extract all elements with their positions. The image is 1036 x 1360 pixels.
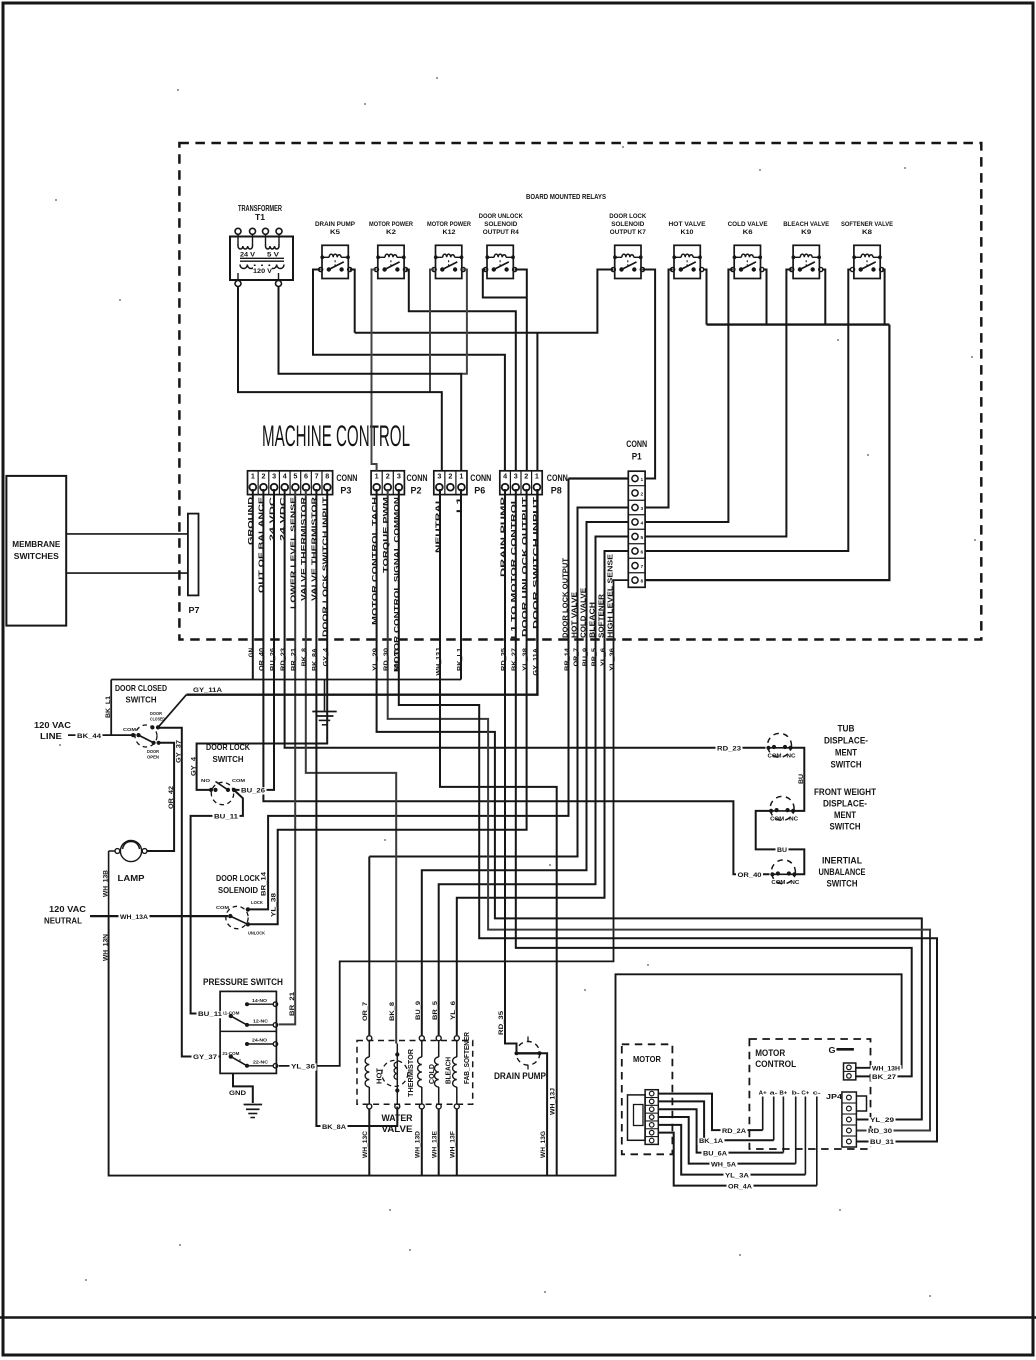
svg-text:A+: A+ [759, 1091, 767, 1097]
svg-text:GND: GND [229, 1090, 246, 1097]
svg-text:11-COM: 11-COM [222, 1011, 239, 1017]
label K8 [841, 221, 893, 236]
wire RD_23 (P3 pin4) [285, 489, 766, 748]
svg-text:BR_14: BR_14 [261, 871, 268, 896]
svg-text:OUT OF BALANCE: OUT OF BALANCE [259, 496, 266, 593]
svg-text:OR_42: OR_42 [168, 785, 175, 809]
svg-text:MOTOR POWER: MOTOR POWER [369, 221, 413, 228]
svg-text:K2: K2 [386, 229, 396, 236]
svg-text:BR_21: BR_21 [289, 991, 296, 1016]
svg-text:1: 1 [375, 471, 379, 480]
svg-text:P2: P2 [411, 486, 422, 497]
svg-text:UNBALANCE: UNBALANCE [819, 867, 866, 877]
svg-text:1: 1 [459, 471, 463, 480]
svg-text:2: 2 [386, 471, 390, 480]
svg-text:8: 8 [641, 579, 644, 585]
svg-text:7: 7 [315, 471, 319, 480]
wire BU_31 signal common (P2 pin3) [399, 489, 937, 1142]
label OR_7 [362, 1001, 369, 1021]
P2 pin name labels [372, 497, 401, 672]
door closed switch [115, 683, 167, 760]
relay R4 [484, 245, 517, 278]
svg-text:K10: K10 [681, 229, 694, 236]
svg-text:CONN: CONN [407, 473, 428, 484]
svg-text:YL_29: YL_29 [870, 1117, 895, 1124]
svg-text:GY_11A: GY_11A [533, 647, 540, 675]
wire L1 top run with ground tap [111, 680, 461, 736]
svg-text:K6: K6 [743, 229, 753, 236]
svg-text:MACHINE CONTROL: MACHINE CONTROL [262, 420, 410, 453]
svg-text:DOOR LOCK OUTPUT: DOOR LOCK OUTPUT [563, 557, 570, 638]
connector P7 [188, 514, 200, 615]
svg-text:SWITCHES: SWITCHES [14, 551, 59, 561]
ground symbol (earth) [312, 712, 336, 725]
transformer T1 [230, 204, 293, 287]
wire K7 right to P1 pin1 [642, 270, 655, 479]
svg-text:SOLENOID: SOLENOID [484, 221, 517, 228]
door lock solenoid [216, 873, 265, 936]
svg-text:BK_L1: BK_L1 [105, 695, 112, 718]
svg-text:BK_44: BK_44 [77, 733, 102, 740]
wire K10 left to P1 pin3 [645, 270, 673, 508]
svg-text:THERMISTOR: THERMISTOR [408, 1049, 415, 1097]
svg-text:P7: P7 [189, 606, 201, 615]
wire GY_11A door switch input (P8 pin4) [158, 489, 537, 727]
P8 pin name labels [500, 496, 539, 639]
label K12 [427, 221, 471, 236]
P6 pin name labels [435, 496, 463, 553]
svg-text:22-NC: 22-NC [253, 1059, 269, 1065]
connector motor control 2-pin [844, 1063, 856, 1080]
front weight displacement switch [769, 796, 798, 822]
svg-text:OPEN: OPEN [147, 755, 159, 760]
svg-text:BU_11: BU_11 [214, 814, 239, 821]
wire YL_29 motor control tach (P2 pin1) [377, 489, 922, 1120]
svg-text:1: 1 [535, 471, 539, 480]
wire K12 left to transformer neutral run [430, 270, 434, 393]
connector JP4 [826, 1092, 867, 1147]
wire membrane to P7 upper [66, 533, 188, 535]
label OR_40 at switch [736, 872, 763, 879]
wire lamp to neutral [108, 851, 110, 916]
svg-text:YL_36: YL_36 [291, 1064, 316, 1071]
svg-text:COM: COM [771, 880, 785, 886]
wire bus to P8 pin4 [536, 333, 538, 471]
svg-text:SWITCH: SWITCH [126, 695, 157, 705]
wire K2 left to P2 pin1 [372, 270, 377, 471]
relay K7 [611, 245, 644, 278]
svg-text:YL_6: YL_6 [450, 1000, 457, 1020]
svg-text:3: 3 [397, 471, 401, 480]
svg-text:WH_13G: WH_13G [540, 1131, 547, 1158]
svg-text:BR_5: BR_5 [591, 647, 598, 666]
relay K10 [671, 245, 704, 278]
svg-text:OR_7: OR_7 [362, 1001, 369, 1021]
wire YL_38 door unlock output (P8 pin3) [250, 489, 527, 924]
svg-text:BU: BU [798, 773, 805, 784]
svg-text:4: 4 [503, 471, 507, 480]
membrane switches box [6, 476, 66, 626]
svg-text:YL_38: YL_38 [270, 892, 277, 917]
svg-text:C+: C+ [801, 1091, 809, 1097]
node G [829, 1045, 854, 1055]
svg-text:24 VDC: 24 VDC [280, 497, 287, 541]
svg-text:BU: BU [777, 847, 788, 854]
tub displacement switch [766, 733, 795, 759]
svg-text:VALVE: VALVE [382, 1124, 413, 1134]
svg-text:BU_31: BU_31 [870, 1139, 895, 1146]
svg-text:DOOR LOCK: DOOR LOCK [216, 873, 261, 883]
wire K2 right to P8 pin2 [406, 270, 516, 471]
svg-text:21-COM: 21-COM [222, 1051, 239, 1057]
labels motor wires [698, 1128, 754, 1191]
svg-text:7: 7 [641, 564, 644, 570]
label BK_8A at valve [321, 1124, 348, 1131]
wire bus K5-K7 [355, 270, 614, 333]
label BU_11 at pressure switch [197, 1011, 224, 1018]
connector P6 [434, 471, 492, 497]
wire K12 right joins L1 run [461, 270, 467, 374]
svg-text:SWITCH: SWITCH [831, 760, 862, 770]
P1 net name labels [563, 554, 615, 638]
svg-text:MOTOR: MOTOR [633, 1054, 661, 1064]
motor dashed box [622, 1044, 673, 1154]
svg-text:P3: P3 [340, 486, 351, 497]
node 120 VAC NEUTRAL [44, 904, 228, 926]
wire transformer primary left to P6 pin3 neutral [238, 287, 442, 471]
svg-text:BU_6A: BU_6A [703, 1150, 728, 1157]
wire BR_5 bleach (P1 pin5) [439, 537, 629, 1036]
svg-text:1: 1 [251, 471, 255, 480]
svg-text:YL_36: YL_36 [609, 647, 616, 671]
svg-text:BU_9: BU_9 [582, 647, 589, 666]
wire YL_6 softener (P1 pin6) [457, 551, 629, 1035]
svg-text:MOTOR: MOTOR [755, 1048, 785, 1058]
svg-text:WH_13H: WH_13H [872, 1065, 901, 1072]
svg-text:BK_1A: BK_1A [699, 1138, 724, 1145]
wire R4 right to P8 pin3 [515, 270, 527, 471]
svg-text:COLD VALVE: COLD VALVE [728, 221, 768, 228]
wire K6 right to valve bus [763, 270, 766, 325]
svg-text:K5: K5 [330, 229, 340, 236]
svg-text:3: 3 [641, 506, 644, 512]
svg-text:BU_26: BU_26 [241, 788, 266, 795]
svg-text:TRANSFORMER: TRANSFORMER [238, 204, 282, 213]
connector P3 [248, 471, 358, 497]
svg-text:T1: T1 [255, 213, 266, 222]
connector P1 [626, 439, 647, 587]
label BK_L1 [105, 695, 112, 718]
svg-text:COM: COM [232, 778, 245, 784]
svg-text:BK_L1: BK_L1 [456, 647, 463, 671]
svg-text:SOFTENER VALVE: SOFTENER VALVE [841, 221, 893, 228]
wire K9 right to valve bus [822, 270, 825, 325]
svg-text:BLEACH: BLEACH [446, 1057, 453, 1084]
svg-text:BK_8: BK_8 [389, 1001, 396, 1021]
svg-text:RD_2A: RD_2A [722, 1128, 747, 1135]
svg-text:GY_11A: GY_11A [193, 687, 222, 694]
relay K6 [731, 245, 764, 278]
svg-text:1: 1 [641, 477, 644, 483]
svg-text:BU_11: BU_11 [198, 1011, 223, 1018]
wire YL_36 high level sense (P1 pin8) [279, 580, 629, 1066]
label BR_21 [289, 991, 296, 1016]
svg-text:6: 6 [304, 471, 308, 480]
motor phase wires [658, 1094, 817, 1186]
svg-text:RD_30: RD_30 [383, 647, 390, 671]
svg-text:VALVE THERMISTOR: VALVE THERMISTOR [312, 497, 319, 601]
svg-text:LINE: LINE [40, 731, 62, 741]
svg-text:DOOR UNLOCK OUTPUT: DOOR UNLOCK OUTPUT [522, 496, 529, 637]
svg-text:CONN: CONN [336, 473, 357, 484]
svg-text:GROUND: GROUND [248, 497, 255, 545]
label K9 [783, 221, 829, 236]
wire RD_30 torque pwm (P2 pin2) [388, 489, 930, 1131]
svg-text:BK_27: BK_27 [511, 647, 518, 671]
lamp [109, 840, 147, 883]
svg-text:MOTOR CONTROL TACH: MOTOR CONTROL TACH [372, 497, 379, 625]
motor control dashed box [749, 1039, 870, 1149]
svg-text:WH_13D: WH_13D [415, 1130, 422, 1158]
svg-text:4: 4 [641, 520, 644, 526]
svg-text:P1: P1 [632, 452, 642, 462]
wire BR_14 door lock output (P1 pin1) [250, 479, 629, 910]
label WH_13B [103, 869, 110, 897]
svg-text:DOOR UNLOCK: DOOR UNLOCK [479, 213, 523, 220]
svg-text:SWITCH: SWITCH [830, 822, 861, 832]
svg-text:RD_30: RD_30 [868, 1128, 893, 1135]
svg-text:SOLENOID: SOLENOID [611, 221, 644, 228]
svg-text:2: 2 [524, 471, 528, 480]
label BU horizontal [776, 847, 789, 854]
svg-text:RD_35: RD_35 [498, 1010, 505, 1035]
svg-text:MEMBRANE: MEMBRANE [12, 539, 60, 549]
svg-text:WH_13C: WH_13C [362, 1130, 369, 1158]
svg-text:SWITCH: SWITCH [213, 754, 244, 764]
label inertial unbalance switch [819, 856, 866, 889]
svg-text:SOLENOID: SOLENOID [218, 885, 258, 895]
wire K5 right to bus [350, 270, 355, 333]
label BU_9 [415, 1000, 422, 1020]
svg-text:DOOR LOCK: DOOR LOCK [609, 213, 646, 220]
svg-text:L1 TO MOTOR CONTROL: L1 TO MOTOR CONTROL [511, 496, 518, 639]
relay K8 [850, 245, 883, 278]
door lock switch [201, 742, 251, 805]
label WH_13N [103, 933, 110, 961]
svg-text:G: G [829, 1045, 836, 1055]
svg-text:FRONT WEIGHT: FRONT WEIGHT [814, 787, 876, 797]
svg-text:NC: NC [789, 816, 798, 822]
svg-text:120 VAC: 120 VAC [49, 904, 86, 914]
svg-text:K8: K8 [862, 229, 872, 236]
wire membrane to P7 lower [66, 572, 188, 574]
svg-text:2: 2 [261, 471, 265, 480]
svg-text:K9: K9 [801, 229, 811, 236]
label RD_23 [716, 745, 743, 752]
label K7 [609, 213, 646, 236]
svg-text:DOOR CLOSED: DOOR CLOSED [115, 683, 167, 693]
svg-text:CONN: CONN [547, 473, 568, 484]
relay K9 [790, 245, 823, 278]
label GY_37 vertical [175, 739, 182, 763]
label BK_8 [389, 1001, 396, 1021]
label YL_36 [290, 1063, 317, 1070]
svg-text:5 V: 5 V [267, 252, 280, 259]
label tub displacement switch [824, 724, 868, 770]
svg-text:24 V: 24 V [240, 252, 255, 259]
svg-text:COLD VALVE: COLD VALVE [581, 588, 588, 638]
wire RD_35 drain pump (P8 pin1) [505, 489, 517, 1051]
labels WH_13C-F [362, 1130, 457, 1158]
svg-text:GY_4: GY_4 [323, 647, 330, 666]
connector P2 [371, 471, 427, 497]
svg-text:2: 2 [641, 491, 644, 497]
svg-text:6: 6 [641, 549, 644, 555]
label BU vertical [798, 773, 805, 784]
svg-text:120 V: 120 V [253, 268, 272, 275]
wire WH_13J neutral (P6 pin3) [440, 489, 557, 1176]
node 120 VAC LINE [34, 720, 133, 741]
label GY_11A [193, 687, 222, 694]
svg-text:c-: c- [813, 1091, 821, 1097]
svg-text:YL_29: YL_29 [372, 647, 379, 671]
svg-text:CONTROL: CONTROL [755, 1059, 796, 1069]
svg-text:WATER: WATER [382, 1113, 413, 1123]
connector P8 [500, 471, 568, 497]
valve bus K10-K8 to P1 pin8 [645, 325, 889, 580]
svg-text:YL_3A: YL_3A [725, 1172, 750, 1179]
svg-text:LAMP: LAMP [118, 873, 145, 883]
svg-text:MENT: MENT [835, 748, 857, 758]
svg-text:RD_35: RD_35 [500, 647, 507, 671]
svg-text:3: 3 [514, 471, 518, 480]
svg-text:YL_38: YL_38 [522, 647, 529, 671]
label K5 [315, 221, 355, 236]
svg-text:WH_13F: WH_13F [450, 1131, 457, 1158]
svg-text:8: 8 [325, 471, 329, 480]
svg-text:WH_13J: WH_13J [550, 1087, 557, 1115]
svg-text:WH_5A: WH_5A [711, 1161, 737, 1168]
pressure switch [203, 977, 283, 1073]
svg-text:BK_8: BK_8 [301, 647, 308, 666]
svg-text:120 VAC: 120 VAC [34, 720, 71, 730]
wire OR_42 door open contact to lamp [148, 743, 175, 851]
wire BK_27 L1 to motor control (P8 pin2) [516, 489, 912, 1076]
label K2 [369, 221, 413, 236]
svg-text:P8: P8 [551, 486, 562, 497]
svg-text:3: 3 [437, 471, 441, 480]
scan speckles [55, 77, 976, 1297]
label front weight displacement switch [814, 787, 876, 832]
svg-text:14-NO: 14-NO [252, 998, 267, 1004]
svg-text:12-NC: 12-NC [253, 1018, 269, 1024]
label OR_42 [168, 785, 175, 809]
wire GN ground (P3 pin1) [252, 489, 254, 680]
svg-text:BLEACH VALVE: BLEACH VALVE [783, 221, 829, 228]
svg-text:BU_31: BU_31 [394, 647, 401, 671]
wire K10 right to valve bus [703, 270, 706, 325]
label BU_26 [240, 787, 267, 794]
svg-text:DOOR SWITCH INPUT: DOOR SWITCH INPUT [533, 496, 540, 629]
svg-text:OR_4A: OR_4A [728, 1183, 753, 1190]
machine control board dashed outline [179, 143, 981, 640]
svg-text:BR_5: BR_5 [432, 1000, 439, 1020]
label GY_4 [190, 756, 197, 776]
wire neutral rail to motor control [109, 916, 902, 1176]
wire BU_11 door lock switch to pressure switch [191, 790, 243, 1014]
svg-text:CONN: CONN [626, 439, 647, 449]
wire id labels below board [248, 647, 616, 675]
svg-text:BU_9: BU_9 [415, 1000, 422, 1020]
water valve assembly [357, 1032, 473, 1134]
label K10 [669, 221, 706, 236]
svg-text:OUTPUT K7: OUTPUT K7 [610, 229, 646, 236]
svg-text:HOT VALVE: HOT VALVE [669, 221, 706, 228]
svg-text:BR_21: BR_21 [291, 647, 298, 671]
svg-text:JP4: JP4 [826, 1092, 843, 1101]
svg-text:DOOR: DOOR [150, 711, 162, 716]
wire BU_26 (P3 pin3) [233, 489, 275, 790]
svg-text:GY_37: GY_37 [175, 739, 182, 763]
svg-text:3: 3 [272, 471, 276, 480]
relay K5 [319, 245, 352, 278]
svg-text:2: 2 [448, 471, 452, 480]
svg-text:NEUTRAL: NEUTRAL [435, 496, 442, 553]
wire K8 left to P1 pin6 [645, 270, 851, 552]
wire GY_4 door lock switch input (P3 pin8) [197, 489, 328, 790]
svg-text:DISPLACE-: DISPLACE- [823, 799, 867, 809]
svg-text:GY_37: GY_37 [193, 1054, 218, 1061]
relay K12 [432, 245, 465, 278]
svg-text:HOT VALVE: HOT VALVE [571, 592, 578, 638]
wire WH_13G pump to rail [540, 1053, 548, 1175]
svg-text:BK_8A: BK_8A [312, 647, 319, 671]
svg-text:24-NO: 24-NO [252, 1038, 267, 1044]
label GY_37 at pressure switch [192, 1054, 219, 1061]
svg-text:TUB: TUB [838, 724, 855, 734]
motor control phase pins [759, 1091, 822, 1186]
svg-text:a-: a- [770, 1091, 778, 1097]
svg-text:NC: NC [790, 880, 799, 886]
svg-text:YL_6: YL_6 [600, 647, 607, 666]
wire BU_9 cold valve (P1 pin4) [422, 522, 629, 1035]
svg-text:BU_26: BU_26 [269, 647, 276, 671]
svg-text:BR_14: BR_14 [564, 647, 571, 671]
svg-text:GN: GN [248, 647, 255, 657]
svg-text:COM: COM [123, 727, 136, 733]
title BOARD MOUNTED RELAYS [526, 192, 606, 201]
svg-text:RD_23: RD_23 [717, 746, 742, 753]
svg-text:NC: NC [787, 753, 796, 759]
svg-text:DRAIN PUMP: DRAIN PUMP [494, 1071, 547, 1082]
svg-text:B+: B+ [779, 1091, 787, 1097]
svg-text:5: 5 [293, 471, 297, 480]
wires water valve to neutral rail [369, 1109, 457, 1176]
wire GY_37 door closed contact to pressure switch [158, 728, 221, 1057]
svg-text:OR_40: OR_40 [259, 647, 266, 671]
svg-text:UNLOCK: UNLOCK [248, 931, 265, 936]
svg-text:LOCK: LOCK [251, 900, 263, 905]
svg-text:FAB_SOFTENER: FAB_SOFTENER [464, 1032, 471, 1084]
svg-text:INERTIAL: INERTIAL [822, 856, 862, 866]
wire BK_L1 (P6 pin1) [460, 489, 462, 680]
wire BK_8A valve thermistor (P3 pin7) [316, 489, 397, 1126]
svg-text:BOARD MOUNTED RELAYS: BOARD MOUNTED RELAYS [526, 192, 606, 201]
svg-text:WH_13J: WH_13J [435, 647, 442, 675]
svg-text:TORQUE PWM: TORQUE PWM [383, 497, 390, 573]
label BR_14 [261, 871, 268, 896]
label WH_13J vertical [550, 1087, 557, 1115]
